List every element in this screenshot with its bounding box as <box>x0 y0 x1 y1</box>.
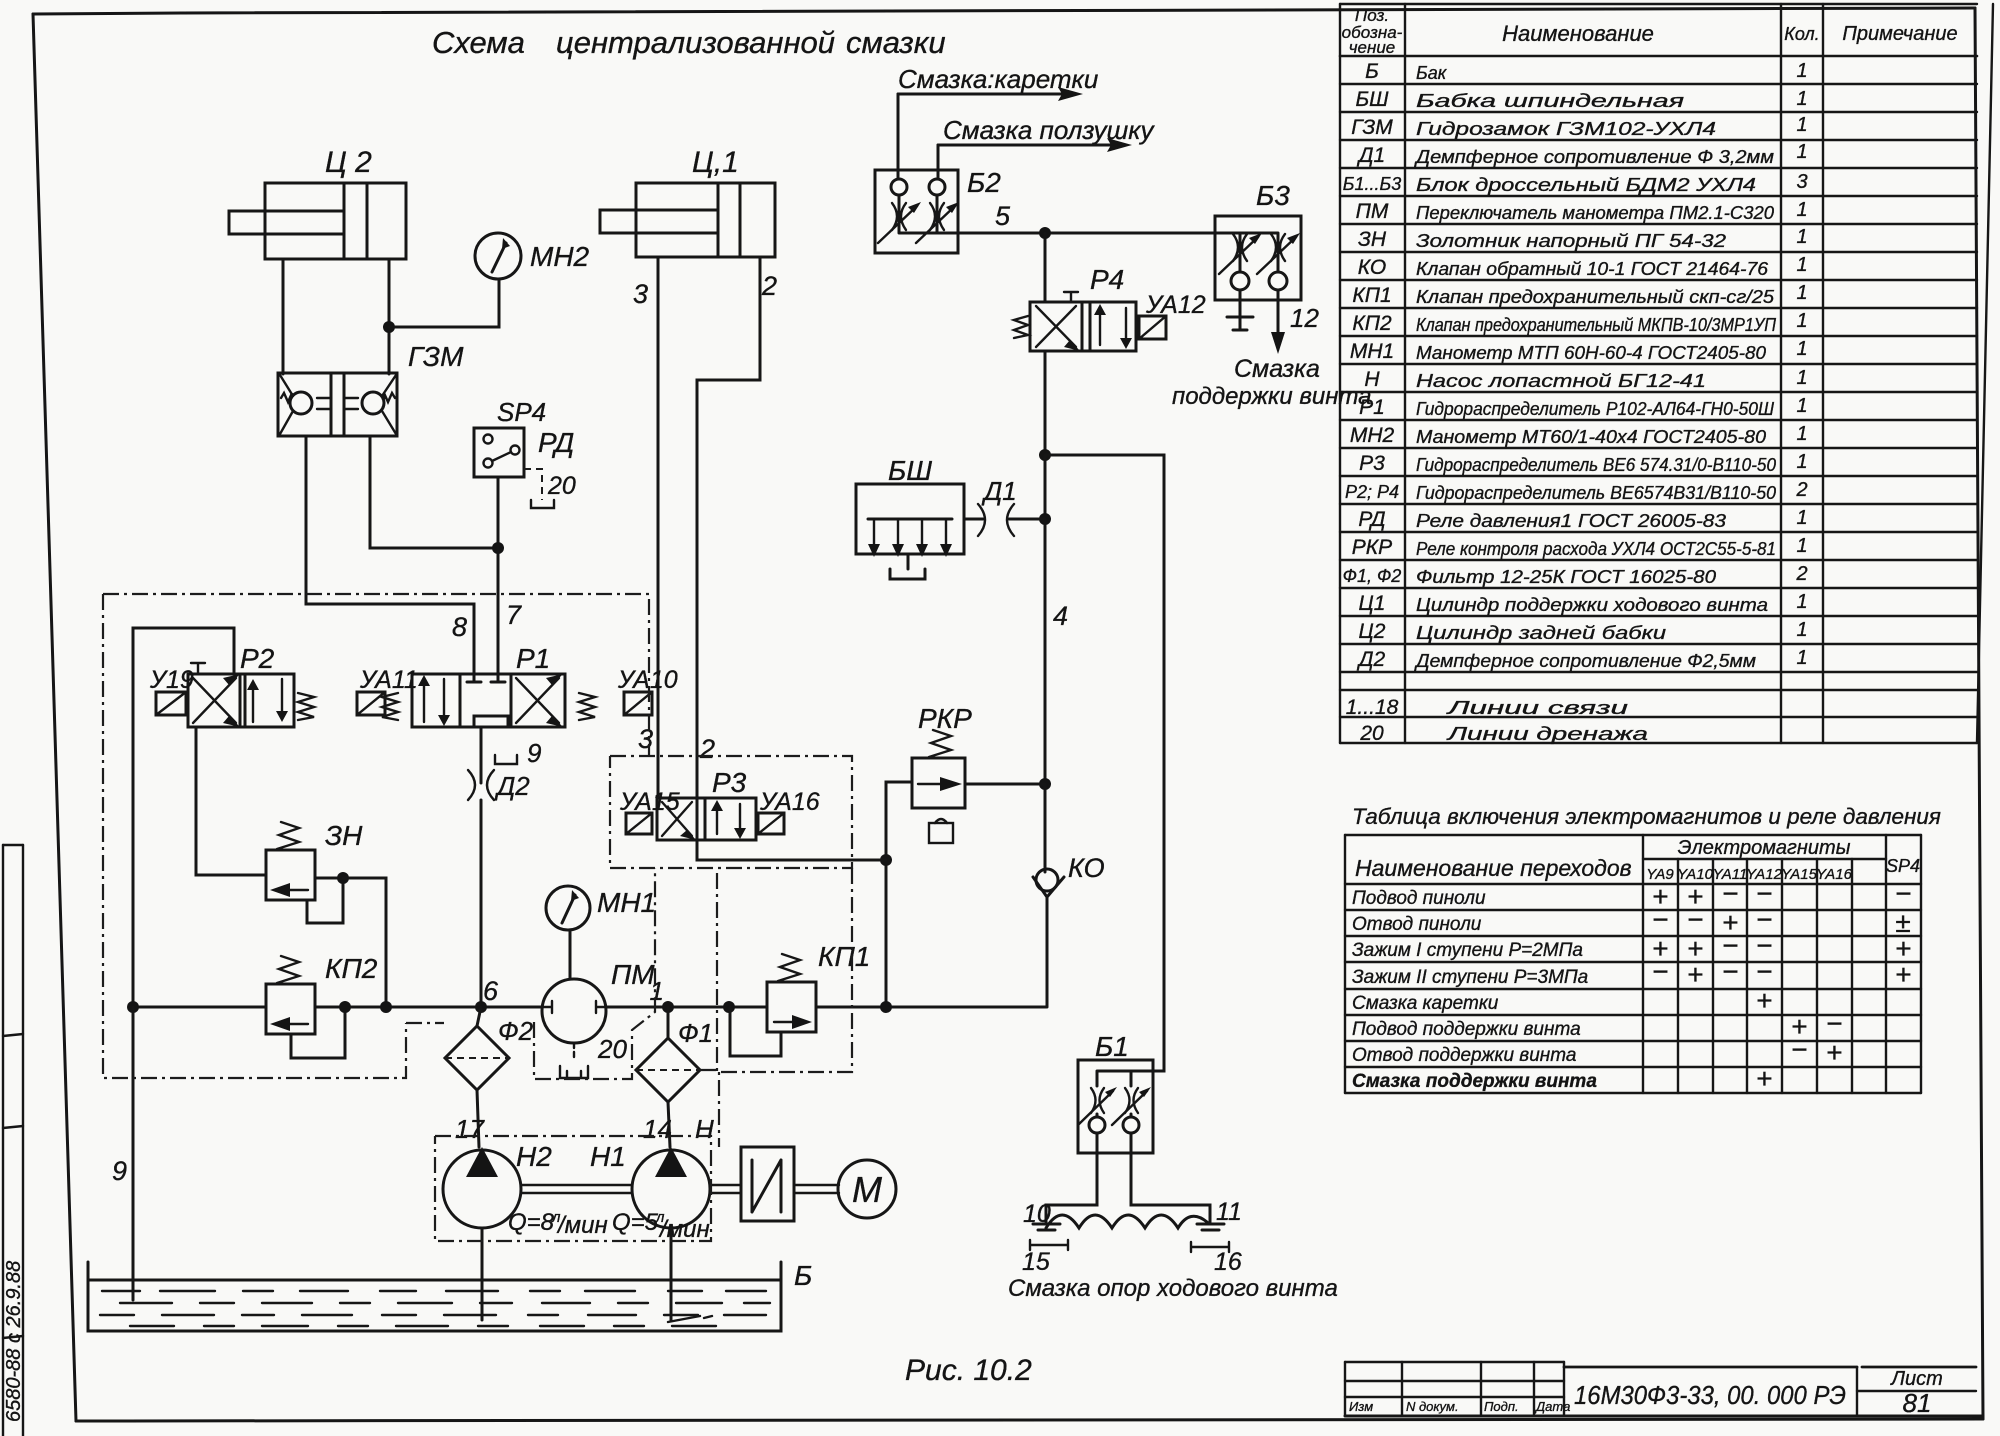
svg-text:Отвод пиноли: Отвод пиноли <box>1352 914 1482 935</box>
headstock block БШ <box>856 455 964 579</box>
svg-text:Таблица включения электромагни: Таблица включения электромагнитов и реле… <box>1352 804 1941 829</box>
svg-text:Ф2: Ф2 <box>498 1016 534 1046</box>
svg-text:УА10: УА10 <box>617 666 678 694</box>
gauge МН2 <box>475 233 590 279</box>
dash-dot enclosure main <box>103 594 649 1078</box>
svg-text:Б: Б <box>1365 60 1379 83</box>
solenoid УА12 <box>1139 291 1206 339</box>
svg-text:/мин: /мин <box>556 1212 608 1239</box>
cylinder Ц2 <box>229 146 406 259</box>
wire main down from node4 <box>1044 455 1047 519</box>
svg-text:КО: КО <box>1068 853 1105 883</box>
wire ЗН to bus 6 <box>343 878 386 1007</box>
node bus/Ф1 <box>662 1001 674 1013</box>
svg-text:−: − <box>1687 904 1703 935</box>
svg-text:9: 9 <box>112 1156 127 1186</box>
dash-dot filter links <box>406 1022 444 1024</box>
svg-text:ГЗМ: ГЗМ <box>408 341 464 372</box>
main schematic title <box>432 25 946 60</box>
svg-text:Гидрозамок ГЗМ102-УХЛ4: Гидрозамок ГЗМ102-УХЛ4 <box>1416 119 1716 139</box>
svg-text:Н2: Н2 <box>516 1141 552 1172</box>
svg-text:Подвод пиноли: Подвод пиноли <box>1352 888 1486 909</box>
node branch to Б1 <box>1039 449 1051 461</box>
spring of Р4 <box>1014 316 1028 338</box>
svg-text:−: − <box>1722 878 1738 909</box>
svg-text:Смазка ползушку: Смазка ползушку <box>943 115 1155 145</box>
wire Ц2 to ГЗМ left <box>282 259 285 374</box>
pump Н2 <box>443 1114 552 1320</box>
svg-text:8: 8 <box>452 612 467 642</box>
svg-text:10: 10 <box>1023 1200 1051 1228</box>
valve Р3 <box>657 767 756 840</box>
svg-text:Наименование переходов: Наименование переходов <box>1355 855 1632 881</box>
solenoid У19 <box>149 666 194 715</box>
svg-text:Р2: Р2 <box>240 643 275 674</box>
svg-text:КП2: КП2 <box>1352 312 1392 335</box>
node bus/КП2 drain <box>339 1001 351 1013</box>
svg-text:+: + <box>1687 959 1703 990</box>
svg-text:2: 2 <box>761 271 777 301</box>
wire line 4 to Б1 <box>1045 455 1164 1071</box>
svg-text:15: 15 <box>1022 1248 1050 1276</box>
title block <box>1345 1362 1983 1418</box>
svg-text:1: 1 <box>1796 423 1807 445</box>
svg-text:1: 1 <box>1796 367 1807 389</box>
svg-text:БШ: БШ <box>888 455 932 486</box>
svg-text:1: 1 <box>1796 647 1807 669</box>
svg-text:6: 6 <box>483 976 499 1006</box>
node bus/Д2 <box>475 1001 487 1013</box>
gauge МН1 <box>546 886 656 979</box>
svg-text:Р4: Р4 <box>1090 264 1124 295</box>
svg-text:Р3: Р3 <box>1359 452 1385 475</box>
svg-text:1: 1 <box>1796 451 1807 473</box>
spring left of Р1 <box>382 693 398 720</box>
svg-text:Бабка шпиндельная: Бабка шпиндельная <box>1416 91 1685 111</box>
svg-text:Линии дренажа: Линии дренажа <box>1446 724 1648 744</box>
svg-text:Бак: Бак <box>1416 63 1448 83</box>
node ЗН output <box>337 872 349 884</box>
svg-text:Б2: Б2 <box>967 167 1001 198</box>
svg-text:1: 1 <box>1796 226 1807 248</box>
valve ЗН <box>266 820 363 923</box>
svg-text:Отвод поддержки винта: Отвод поддержки винта <box>1352 1045 1576 1066</box>
tank oil hatching <box>100 1291 770 1326</box>
flow relay РКР <box>912 703 972 843</box>
svg-text:1: 1 <box>1796 310 1807 332</box>
valve Р4 <box>1030 264 1136 351</box>
svg-text:МН1: МН1 <box>1350 340 1394 363</box>
svg-text:Н1: Н1 <box>590 1141 626 1172</box>
svg-text:+: + <box>1895 959 1911 990</box>
svg-text:Зажим II ступени Р=3МПа: Зажим II ступени Р=3МПа <box>1352 967 1588 988</box>
wire Р2 pilot up-left <box>133 628 234 1007</box>
svg-text:1: 1 <box>1796 282 1807 304</box>
svg-text:УА16: УА16 <box>759 788 820 816</box>
svg-text:Кол.: Кол. <box>1784 24 1819 44</box>
svg-text:1: 1 <box>1796 199 1807 221</box>
svg-text:Демпферное сопротивление Ф2,5м: Демпферное сопротивление Ф2,5мм <box>1414 651 1756 671</box>
svg-text:чение: чение <box>1349 38 1396 57</box>
svg-text:Гидрораспределитель ВЕ6 574.31: Гидрораспределитель ВЕ6 574.31/0-В110-50 <box>1416 455 1776 475</box>
svg-text:ГЗМ: ГЗМ <box>1351 116 1393 139</box>
svg-text:Подвод поддержки винта: Подвод поддержки винта <box>1352 1019 1581 1040</box>
header texts <box>1342 6 1958 57</box>
svg-text:Р1: Р1 <box>1359 396 1385 419</box>
svg-text:МН1: МН1 <box>597 887 656 918</box>
svg-text:Ц,1: Ц,1 <box>692 146 739 179</box>
wire to gauge МН2 <box>389 279 499 327</box>
svg-text:12: 12 <box>1290 303 1319 333</box>
svg-text:Смазка поддержки винта: Смазка поддержки винта <box>1352 1071 1597 1092</box>
valve КП1 <box>730 941 870 1056</box>
svg-text:РД: РД <box>538 427 574 458</box>
pump shaft lines <box>521 1185 632 1193</box>
svg-text:Примечание: Примечание <box>1842 23 1957 45</box>
svg-text:Схема: Схема <box>432 25 525 60</box>
svg-text:1: 1 <box>1796 60 1807 82</box>
svg-text:Смазка: Смазка <box>1234 355 1320 383</box>
Б1 outlets to screw supports <box>1046 1133 1210 1224</box>
svg-text:−: − <box>1756 956 1772 987</box>
svg-text:1: 1 <box>1796 619 1807 641</box>
node bus/КП1 drain <box>723 1001 735 1013</box>
svg-text:Смазка каретки: Смазка каретки <box>1352 993 1499 1014</box>
lubrication coil line <box>1046 1215 1207 1228</box>
svg-text:Д2: Д2 <box>1357 648 1386 671</box>
svg-text:КП1: КП1 <box>818 941 870 972</box>
valve Р2 <box>188 643 294 727</box>
Б3 right outlet arrow 12 <box>1271 290 1319 354</box>
svg-text:Р3: Р3 <box>712 767 747 798</box>
Р1 drain 9 <box>481 727 541 783</box>
svg-text:УА15: УА15 <box>619 788 680 816</box>
svg-text:Подп.: Подп. <box>1484 1399 1519 1414</box>
svg-text:YA16: YA16 <box>1816 866 1853 883</box>
hydraulic lock ГЗМ <box>278 341 464 436</box>
gauge selector ПМ <box>542 959 655 1078</box>
wire Р3 bottom to bus <box>697 840 886 860</box>
svg-text:/мин: /мин <box>658 1216 710 1243</box>
wire node5 to Р4 <box>1044 233 1047 302</box>
lubrication outlet Смазка каретки <box>898 64 1098 179</box>
ground symbol 10 <box>1022 1200 1068 1276</box>
svg-text:ЗН: ЗН <box>325 820 363 851</box>
svg-text:9: 9 <box>527 738 541 768</box>
motor М <box>838 1160 896 1218</box>
svg-text:Б: Б <box>794 1260 812 1291</box>
svg-text:81: 81 <box>1903 1388 1932 1418</box>
svg-text:1: 1 <box>1796 338 1807 360</box>
svg-text:2: 2 <box>1795 563 1807 585</box>
svg-text:SP4: SP4 <box>497 397 546 427</box>
svg-text:УА12: УА12 <box>1145 291 1206 319</box>
pump Н1 <box>590 1114 714 1320</box>
svg-text:МН2: МН2 <box>530 241 590 272</box>
svg-text:1: 1 <box>1796 507 1807 529</box>
svg-text:+: + <box>1826 1037 1842 1068</box>
svg-text:Гидрораспределитель Р102-АЛ64-: Гидрораспределитель Р102-АЛ64-ГН0-50Ш <box>1416 399 1774 419</box>
svg-text:Реле контроля расхода УХЛ4 ОСТ: Реле контроля расхода УХЛ4 ОСТ2С55-5-81 <box>1416 539 1776 559</box>
svg-text:−: − <box>1652 956 1668 987</box>
node at МН2 tap <box>383 321 395 333</box>
svg-text:20: 20 <box>547 472 576 500</box>
node bus/ЗН <box>380 1001 392 1013</box>
svg-text:Н: Н <box>695 1114 714 1144</box>
svg-text:Р1: Р1 <box>516 643 550 674</box>
wire down to РКР node <box>1044 519 1047 784</box>
svg-text:Д2: Д2 <box>494 771 530 801</box>
svg-text:6580-88 с 26.9.88: 6580-88 с 26.9.88 <box>3 1261 25 1422</box>
svg-text:−: − <box>1895 878 1911 909</box>
node Д1 <box>1039 513 1051 525</box>
svg-text:Ф1, Ф2: Ф1, Ф2 <box>1343 566 1402 586</box>
solenoid УА15 <box>619 788 680 834</box>
node bus/РКР drain <box>880 1001 892 1013</box>
svg-text:Зажим I ступени Р=2МПа: Зажим I ступени Р=2МПа <box>1352 940 1583 961</box>
throttle block Б1 <box>1078 1031 1153 1153</box>
node РКР outlet <box>1039 778 1051 790</box>
main bus line 6 <box>133 976 1046 1007</box>
solenoid УА10 <box>617 666 678 715</box>
cylinder Ц1 <box>600 146 775 257</box>
wire Р2 bottom to ЗН <box>196 727 266 875</box>
dash-dot ПМ drain box <box>534 868 655 1079</box>
svg-text:+: + <box>1756 985 1772 1016</box>
dash-dot pump enclosure <box>435 1136 711 1241</box>
svg-text:БШ: БШ <box>1356 88 1390 111</box>
wire ГЗМ right down to node 7 <box>370 436 498 548</box>
throttle block Б2 <box>875 167 1001 253</box>
svg-text:УА11: УА11 <box>359 666 418 694</box>
svg-text:−: − <box>1652 904 1668 935</box>
svg-text:YA15: YA15 <box>1781 866 1818 883</box>
svg-text:Б3: Б3 <box>1256 180 1290 211</box>
svg-text:Линии связи: Линии связи <box>1446 698 1628 718</box>
svg-text:Б1: Б1 <box>1095 1031 1129 1062</box>
svg-text:Манометр МТП 60Н-60-4 ГОСТ2405: Манометр МТП 60Н-60-4 ГОСТ2405-80 <box>1416 343 1766 363</box>
svg-text:1: 1 <box>650 976 664 1006</box>
svg-text:У19: У19 <box>149 666 194 694</box>
svg-text:Рис. 10.2: Рис. 10.2 <box>905 1354 1032 1387</box>
svg-text:КП2: КП2 <box>325 953 378 984</box>
wire Р4 down to node 4 <box>1044 351 1047 455</box>
filter Ф1 <box>636 976 713 1147</box>
svg-text:−: − <box>1826 1008 1842 1039</box>
svg-text:1: 1 <box>1796 395 1807 417</box>
lubrication outlet Смазка ползушку <box>938 115 1155 179</box>
svg-text:Реле давления1 ГОСТ 26005-83: Реле давления1 ГОСТ 26005-83 <box>1416 511 1726 531</box>
svg-text:Ц1: Ц1 <box>1359 592 1386 615</box>
svg-text:7: 7 <box>506 600 522 630</box>
svg-text:Б1...Б3: Б1...Б3 <box>1343 174 1401 194</box>
svg-text:РД: РД <box>1358 508 1385 531</box>
svg-text:централизованной: централизованной <box>556 25 835 60</box>
check valve КО <box>1033 784 1105 1007</box>
svg-text:1: 1 <box>1796 254 1807 276</box>
svg-text:Клапан предохранительный скп-с: Клапан предохранительный скп-сг/25 <box>1416 287 1775 307</box>
svg-text:Демпферное сопротивление Ф 3,2: Демпферное сопротивление Ф 3,2мм <box>1414 147 1774 167</box>
svg-text:Клапан предохранительный МКПВ-: Клапан предохранительный МКПВ-10/3МР1УП <box>1416 315 1777 335</box>
svg-text:Ц 2: Ц 2 <box>325 146 372 179</box>
wire line 7 to Р1 <box>497 477 500 674</box>
svg-text:Р2; Р4: Р2; Р4 <box>1345 482 1399 502</box>
svg-text:Электромагниты: Электромагниты <box>1678 837 1851 859</box>
svg-text:Д1: Д1 <box>1357 144 1385 167</box>
node at SP4 line <box>492 542 504 554</box>
rows col3 qty <box>1795 60 1807 669</box>
node Р3 drain joins <box>880 854 892 866</box>
solenoid УА16 <box>758 788 820 834</box>
damper Д2 <box>468 770 530 1007</box>
svg-text:1: 1 <box>1796 114 1807 136</box>
svg-text:МН2: МН2 <box>1350 424 1395 447</box>
dash-dot enclosure Р3 <box>610 756 852 868</box>
svg-text:Смазка опор ходового винта: Смазка опор ходового винта <box>1008 1275 1338 1302</box>
svg-text:5: 5 <box>995 201 1011 231</box>
tank Б <box>88 1260 812 1331</box>
pressure switch SP4 / РД <box>474 397 576 508</box>
svg-text:поддержки винта: поддержки винта <box>1172 383 1372 410</box>
svg-text:3: 3 <box>633 279 648 309</box>
parts list table <box>1340 4 1993 745</box>
svg-text:20: 20 <box>1359 722 1384 745</box>
wire РКР left to Р3 drain bus <box>886 782 912 1007</box>
svg-text:Манометр МТ60/1-40х4 ГОСТ2405-: Манометр МТ60/1-40х4 ГОСТ2405-80 <box>1416 427 1766 447</box>
node bus/line9 <box>127 1001 139 1013</box>
svg-text:2: 2 <box>1795 479 1807 501</box>
svg-text:Фильтр 12-25К ГОСТ 16025-80: Фильтр 12-25К ГОСТ 16025-80 <box>1416 567 1716 587</box>
svg-text:Золотник напорный ПГ 54-32: Золотник напорный ПГ 54-32 <box>1416 231 1726 251</box>
filter Ф2 <box>445 1007 534 1147</box>
svg-text:РКР: РКР <box>918 703 972 734</box>
svg-text:Q=5: Q=5 <box>612 1209 659 1236</box>
svg-text:Изм: Изм <box>1349 1399 1373 1414</box>
svg-text:−: − <box>1791 1034 1807 1065</box>
svg-text:Клапан обратный 10-1 ГОСТ 2146: Клапан обратный 10-1 ГОСТ 21464-76 <box>1416 259 1769 279</box>
svg-text:17: 17 <box>455 1114 485 1144</box>
wire 9 down to tank <box>132 1007 135 1300</box>
svg-text:Ц2: Ц2 <box>1359 620 1386 643</box>
svg-text:1: 1 <box>1796 141 1807 163</box>
wire line 5 <box>958 232 1215 235</box>
svg-text:1...18: 1...18 <box>1346 696 1399 719</box>
wire РКР to node <box>965 783 1045 786</box>
svg-text:−: − <box>1722 956 1738 987</box>
svg-text:14: 14 <box>643 1114 672 1144</box>
Б3 left drain plug <box>1227 290 1253 330</box>
wire line 3 from Ц1 <box>657 257 660 798</box>
svg-text:Дата: Дата <box>1534 1399 1570 1414</box>
svg-text:Д1: Д1 <box>981 476 1017 506</box>
svg-text:Блок дроссельный БДМ2 УХЛ4: Блок дроссельный БДМ2 УХЛ4 <box>1416 175 1756 195</box>
electromagnet switching table <box>1345 804 1941 1094</box>
rows col1 <box>1343 60 1402 745</box>
svg-text:смазки: смазки <box>846 25 946 60</box>
dash-dot enclosure КП1 <box>717 868 852 1072</box>
svg-text:РКР: РКР <box>1352 536 1392 559</box>
svg-text:ПМ: ПМ <box>1356 200 1389 223</box>
table grid <box>1340 4 1993 743</box>
svg-text:SP4: SP4 <box>1886 856 1920 876</box>
svg-text:16М30Ф3-33, 00. 000 РЭ: 16М30Ф3-33, 00. 000 РЭ <box>1574 1380 1846 1410</box>
svg-text:Н: Н <box>1364 368 1380 391</box>
svg-text:ЗН: ЗН <box>1358 228 1387 251</box>
damper Д1 <box>964 476 1045 536</box>
svg-text:Лист: Лист <box>1889 1368 1943 1390</box>
ground symbol 11 <box>1191 1198 1242 1276</box>
rows col2 names <box>1414 63 1777 744</box>
svg-text:Насос лопастной БГ12-41: Насос лопастной БГ12-41 <box>1416 371 1706 391</box>
svg-text:Цилиндр задней бабки: Цилиндр задней бабки <box>1416 623 1666 643</box>
left margin ruled strip <box>3 845 25 1436</box>
svg-text:20: 20 <box>597 1034 627 1064</box>
svg-text:Q=8: Q=8 <box>508 1209 555 1236</box>
wire Ц2 to ГЗМ right <box>388 259 391 374</box>
svg-text:N докум.: N докум. <box>1406 1399 1459 1414</box>
wire ГЗМ left down, to line 8 <box>306 436 474 674</box>
svg-text:3: 3 <box>638 724 653 754</box>
svg-text:1: 1 <box>1796 535 1807 557</box>
spring right of Р1 <box>579 693 595 720</box>
svg-text:КО: КО <box>1358 256 1386 279</box>
spring of Р2 <box>298 693 314 720</box>
svg-text:Цилиндр поддержки ходового вин: Цилиндр поддержки ходового винта <box>1416 595 1768 615</box>
svg-text:1: 1 <box>1796 591 1807 613</box>
svg-text:Смазка:каретки: Смазка:каретки <box>898 64 1098 94</box>
valve КП2 <box>266 953 378 1058</box>
svg-text:КП1: КП1 <box>1352 284 1391 307</box>
svg-text:16: 16 <box>1214 1248 1242 1276</box>
svg-text:4: 4 <box>1053 601 1068 631</box>
svg-text:2: 2 <box>699 734 715 764</box>
svg-text:1: 1 <box>1796 88 1807 110</box>
node line5/Р4 <box>1039 227 1051 239</box>
svg-text:Ф1: Ф1 <box>678 1018 713 1048</box>
svg-text:+: + <box>1756 1063 1772 1094</box>
svg-text:3: 3 <box>1796 171 1807 193</box>
svg-text:11: 11 <box>1216 1198 1242 1226</box>
svg-text:Переключатель манометра ПМ2.1-: Переключатель манометра ПМ2.1-С320 <box>1416 203 1774 223</box>
svg-text:М: М <box>852 1169 882 1210</box>
wire line 2 from Ц1 <box>697 257 760 798</box>
valve Р1 <box>412 643 565 727</box>
svg-text:Наименование: Наименование <box>1502 21 1654 46</box>
coupling И <box>741 1147 794 1221</box>
solenoid УА11 <box>357 666 418 715</box>
throttle block Б3 <box>1215 180 1301 300</box>
svg-text:Гидрораспределитель ВЕ6574В31/: Гидрораспределитель ВЕ6574В31/В110-50 <box>1416 483 1776 503</box>
